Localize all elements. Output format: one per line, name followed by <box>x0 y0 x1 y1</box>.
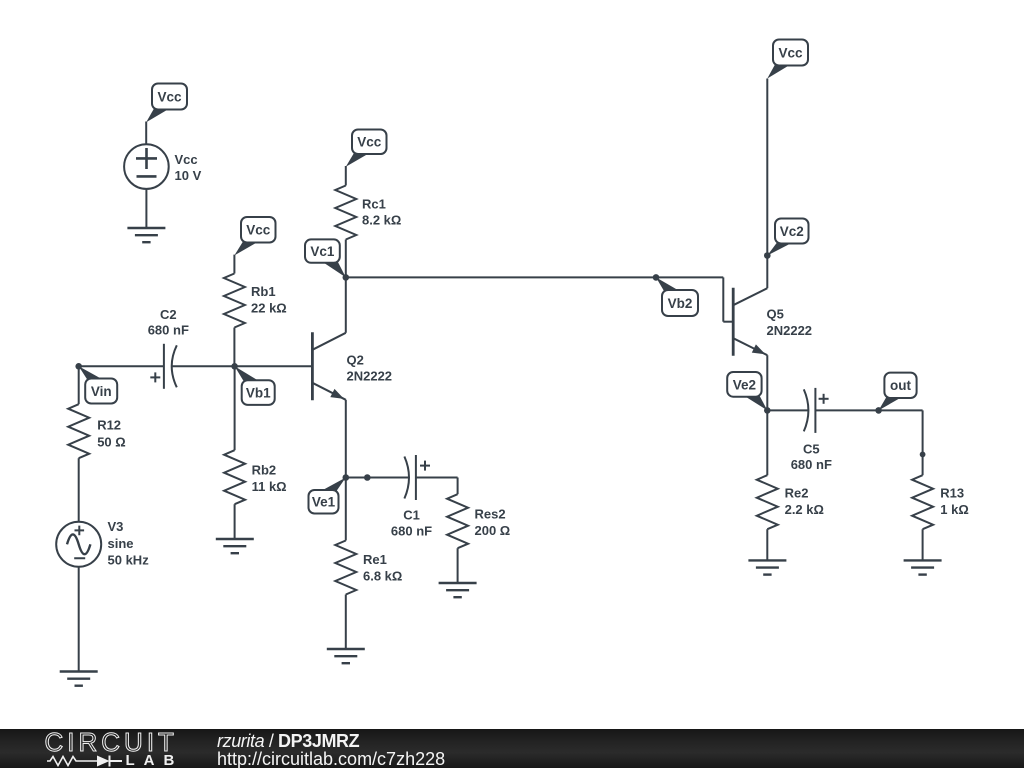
net flag Vcc at Rc1 <box>346 153 370 167</box>
svg-text:Vb1: Vb1 <box>246 385 271 400</box>
capacitor C5 680 nF <box>804 388 829 433</box>
ground at Re1 <box>327 649 365 663</box>
wire to Q5 base bar <box>723 321 733 323</box>
wire Ve2 to Re2 <box>766 410 768 475</box>
footer bar <box>0 729 1024 768</box>
svg-text:Q52N2222: Q52N2222 <box>767 307 813 338</box>
svg-text:C1680 nF: C1680 nF <box>391 508 432 539</box>
wire R13 to ground <box>922 529 924 560</box>
wire Rb2 to ground <box>234 504 236 539</box>
svg-text:out: out <box>890 378 911 393</box>
node Vb2 <box>653 274 660 281</box>
svg-text:Vcc10 V: Vcc10 V <box>175 152 202 183</box>
svg-text:Vcc: Vcc <box>157 89 182 104</box>
resistor Rb1 22 kΩ <box>224 274 245 328</box>
net flag Ve2 <box>744 396 767 411</box>
svg-text:Rc18.2 kΩ: Rc18.2 kΩ <box>362 196 401 227</box>
resistor Re2 2.2 kΩ <box>757 475 778 529</box>
svg-text:C2680 nF: C2680 nF <box>148 307 189 338</box>
transistor Q5 2N2222 <box>733 288 767 356</box>
net flag Ve1 <box>321 478 346 492</box>
resistor R12 50 Ω <box>68 404 89 458</box>
wire Re1 to ground <box>345 595 347 650</box>
node out <box>875 407 882 414</box>
svg-text:R131 kΩ: R131 kΩ <box>940 486 969 517</box>
junction dot R13 <box>920 452 926 458</box>
voltage source V3 sine 50 kHz <box>56 522 101 567</box>
wire down to R13 <box>922 410 924 475</box>
svg-text:Vc1: Vc1 <box>310 244 335 259</box>
ground at V3 <box>60 672 98 686</box>
wire Vc2 to Vcc <box>766 79 768 256</box>
ground at Re2 <box>748 560 786 574</box>
wire Vc1 to Vb2 <box>346 276 724 278</box>
capacitor C1 680 nF <box>404 455 430 500</box>
net flag out <box>879 397 902 410</box>
footer author text <box>217 731 359 752</box>
wire Re2 to ground <box>766 529 768 560</box>
transistor Q2 2N2222 <box>312 332 345 400</box>
svg-text:Vin: Vin <box>91 384 112 399</box>
wire C2 to Q2 base <box>172 365 311 367</box>
ground at Rb2 <box>216 539 254 553</box>
node Vc2 <box>764 252 771 259</box>
svg-text:Re22.2 kΩ: Re22.2 kΩ <box>785 486 824 517</box>
svg-text:Q22N2222: Q22N2222 <box>347 352 393 383</box>
wire Vb1 to Rb2 <box>234 366 236 450</box>
net flag Vcc at V1 <box>146 109 169 123</box>
wire Ve1 to C1 <box>346 477 409 479</box>
capacitor C2 680 nF <box>150 344 177 389</box>
wire R12 to V3 <box>78 458 80 522</box>
logo resistor squiggle and diode <box>47 757 97 766</box>
svg-text:Vcc: Vcc <box>357 135 382 150</box>
wire Res2 to ground <box>457 548 459 583</box>
net flag Vb1 <box>235 366 260 381</box>
wire Vin to C2 <box>79 365 164 367</box>
CircuitLab logo <box>0 729 200 768</box>
node Vc1 <box>343 274 350 281</box>
svg-text:V3sine50 kHz: V3sine50 kHz <box>108 519 150 567</box>
wire Q5 emitter to Ve2 <box>766 355 768 410</box>
ground at R13 <box>904 560 942 574</box>
footer url text <box>217 749 445 770</box>
resistor Re1 6.8 kΩ <box>335 541 356 595</box>
net flag Vb2 <box>656 277 680 291</box>
ground at V1 <box>127 228 165 242</box>
svg-text:Vcc: Vcc <box>246 223 271 238</box>
wire Q2 emitter to Ve1 <box>345 400 347 478</box>
wire V1 top <box>145 122 147 145</box>
resistor Rb2 11 kΩ <box>224 450 245 504</box>
net flag Vc2 <box>767 243 792 256</box>
svg-text:Vb2: Vb2 <box>668 296 693 311</box>
net flag Vc1 <box>322 262 346 278</box>
net flag Vcc at Rb1 <box>234 242 258 256</box>
svg-text:LAB: LAB <box>126 752 184 768</box>
wire V1 bottom <box>145 189 147 228</box>
node Vb1 <box>231 363 238 370</box>
voltage source V1 Vcc 10 V <box>124 144 169 189</box>
wire C1 to Res2 <box>416 477 458 479</box>
svg-text:Vcc: Vcc <box>778 45 803 60</box>
svg-text:Ve2: Ve2 <box>733 377 756 392</box>
wire down to Q5 base <box>722 277 724 321</box>
junction dot Ve1 row <box>364 474 371 481</box>
wire down to Res2 <box>457 478 459 495</box>
wire Ve2 to C5 <box>767 409 808 411</box>
wire Rc1 to Vc1 <box>345 240 347 278</box>
svg-text:Rb122 kΩ: Rb122 kΩ <box>251 284 287 315</box>
net flag Vcc at Q5 <box>767 65 790 79</box>
wire Vcc to Rb1 <box>233 255 235 274</box>
svg-text:R1250 Ω: R1250 Ω <box>97 418 126 450</box>
node Ve2 <box>764 407 771 414</box>
wire Ve1 to Re1 <box>345 478 347 541</box>
resistor R13 1 kΩ <box>912 475 933 529</box>
svg-text:Re16.8 kΩ: Re16.8 kΩ <box>363 552 402 584</box>
svg-text:Vc2: Vc2 <box>780 224 804 239</box>
wire Vin to R12 <box>78 366 80 404</box>
wire Rb1 to Vb1 <box>233 328 235 367</box>
net flag Vin <box>79 366 103 379</box>
node Vin <box>75 363 82 370</box>
wire C5 to out corner <box>815 409 922 411</box>
svg-text:Rb211 kΩ: Rb211 kΩ <box>252 463 287 494</box>
svg-text:C5680 nF: C5680 nF <box>791 442 832 472</box>
resistor Res2 200 Ω <box>447 494 468 548</box>
wire Q2 collector to Vc1 <box>345 277 347 332</box>
resistor Rc1 8.2 kΩ <box>335 186 356 240</box>
wire Q5 collector to Vc2 <box>766 256 768 289</box>
svg-text:Res2200 Ω: Res2200 Ω <box>475 507 511 539</box>
wire V3 to ground <box>78 567 80 672</box>
wire Vcc to Rc1 <box>345 166 347 186</box>
svg-text:Ve1: Ve1 <box>312 495 336 510</box>
ground at Res2 <box>439 583 477 597</box>
node Ve1 <box>343 474 350 481</box>
